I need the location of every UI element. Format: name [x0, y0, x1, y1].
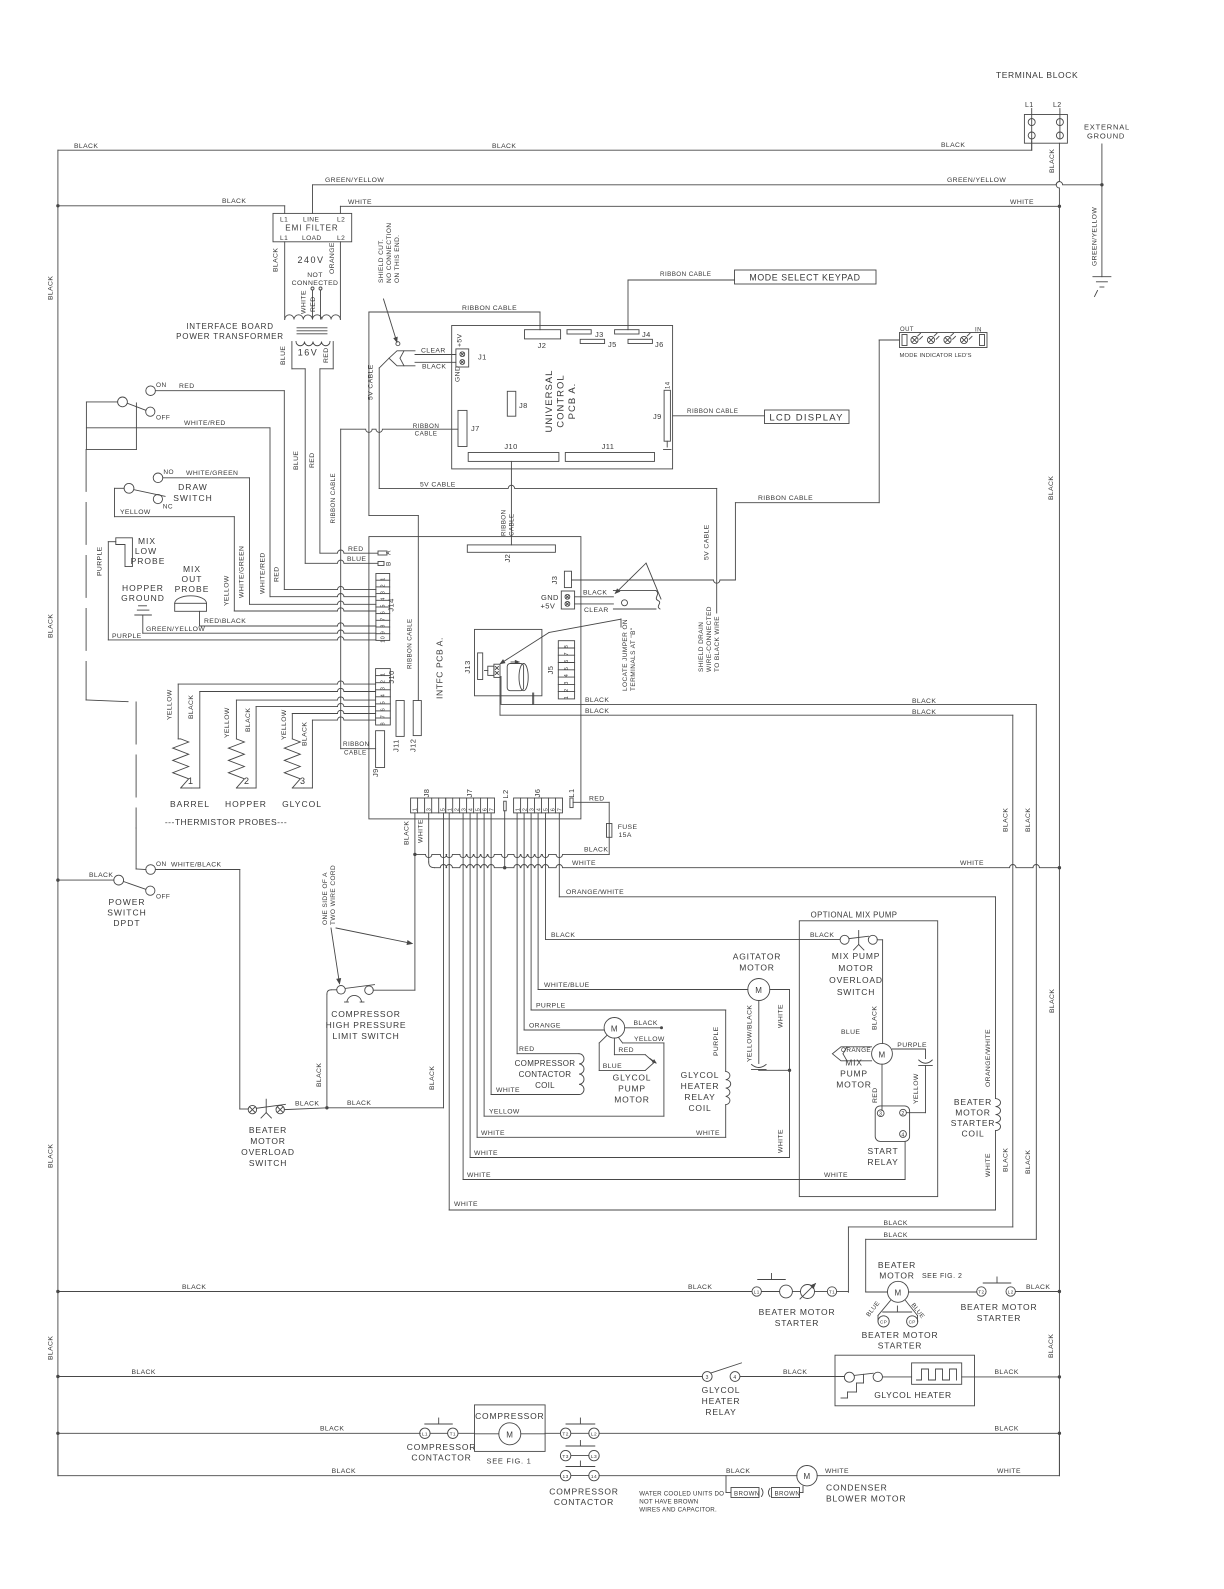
svg-text:PURPLE: PURPLE [536, 1003, 566, 1010]
svg-text:NOT HAVE BROWN: NOT HAVE BROWN [639, 1499, 698, 1506]
wire ribbon cable LEDs to J3 intfc [879, 339, 899, 341]
svg-text:BLACK: BLACK [585, 708, 609, 715]
wire white/red to J14-4 [86, 427, 270, 429]
svg-text:WHITE: WHITE [997, 1468, 1021, 1475]
glycol heater relay coil [726, 1071, 731, 1104]
svg-text:J2: J2 [538, 341, 547, 350]
node rail row2 right [1058, 1375, 1061, 1378]
glycol heater thermostat switch [844, 1372, 854, 1382]
node white bus L2pin [504, 811, 506, 868]
svg-text:WHITE/RED: WHITE/RED [184, 420, 226, 427]
svg-text:+5V: +5V [457, 333, 464, 347]
svg-text:BLACK: BLACK [320, 1426, 344, 1433]
svg-text:BLACK: BLACK [1026, 1284, 1050, 1291]
wire purple to J14-10 [107, 542, 109, 640]
glycol heater relay contacts [702, 1372, 712, 1382]
svg-text:WHITE: WHITE [778, 1129, 785, 1153]
optional mix pump enclosure [799, 921, 937, 1197]
svg-text:RIBBON CABLE: RIBBON CABLE [330, 473, 337, 524]
svg-text:BLACK: BLACK [810, 932, 834, 939]
svg-text:SHIELD DRAIN: SHIELD DRAIN [698, 622, 705, 672]
wire row4 brown section [599, 1475, 797, 1477]
svg-text:CONTROL: CONTROL [556, 374, 567, 427]
connector J8 intfc bottom [411, 798, 446, 813]
svg-text:BEATER MOTOR: BEATER MOTOR [862, 1330, 939, 1340]
node rail row3 [56, 1432, 59, 1435]
wire black top bus L1 [58, 149, 1032, 151]
wire black glycol pump [625, 1027, 660, 1029]
svg-text:SEE FIG. 2: SEE FIG. 2 [922, 1273, 962, 1280]
svg-text:3: 3 [879, 1112, 882, 1118]
svg-text:GROUND: GROUND [1087, 132, 1125, 141]
svg-text:BLACK: BLACK [492, 143, 516, 150]
svg-text:STARTER: STARTER [951, 1118, 996, 1128]
svg-text:BLACK: BLACK [48, 614, 55, 638]
svg-text:BLACK: BLACK [583, 590, 607, 597]
svg-text:3: 3 [461, 808, 467, 812]
wire yellow barrel to J10-3 [177, 684, 179, 739]
svg-text:BLACK: BLACK [1025, 1150, 1032, 1174]
svg-text:SHIELD CUT.: SHIELD CUT. [378, 239, 385, 283]
connector J10 intfc [376, 669, 391, 725]
node rail row1 right [1058, 1290, 1061, 1293]
agitator motor [748, 979, 770, 1001]
connector J12 intfc [413, 701, 421, 736]
svg-text:RED: RED [323, 347, 330, 363]
svg-text:BLACK: BLACK [132, 1369, 156, 1376]
svg-text:J4: J4 [642, 330, 651, 339]
svg-text:1: 1 [564, 696, 570, 699]
svg-text:RELAY: RELAY [705, 1407, 736, 1417]
svg-text:HOPPER: HOPPER [122, 583, 164, 593]
svg-text:RIBBON CABLE: RIBBON CABLE [758, 495, 813, 502]
svg-text:BLACK: BLACK [347, 1100, 371, 1107]
svg-text:2: 2 [564, 688, 570, 691]
terminal L1 pin [570, 798, 573, 808]
svg-text:TWO WIRE CORD: TWO WIRE CORD [330, 865, 337, 925]
svg-text:L1: L1 [422, 1432, 428, 1438]
component J13 block [475, 629, 542, 695]
svg-text:HEATER: HEATER [702, 1396, 741, 1406]
svg-text:L1: L1 [280, 217, 288, 224]
svg-text:WHITE: WHITE [960, 860, 984, 867]
svg-text:3: 3 [300, 776, 305, 786]
svg-text:L1: L1 [567, 788, 576, 797]
svg-text:WHITE: WHITE [418, 819, 425, 843]
svg-text:M: M [878, 1050, 885, 1059]
svg-text:COMPRESSOR: COMPRESSOR [407, 1442, 476, 1452]
svg-text:4: 4 [901, 1132, 904, 1138]
svg-text:PURPLE: PURPLE [713, 1026, 720, 1056]
svg-text:3: 3 [427, 808, 433, 812]
svg-text:J12: J12 [409, 739, 418, 752]
svg-text:CP: CP [909, 1320, 916, 1325]
svg-text:1: 1 [515, 808, 521, 812]
LCD display [765, 410, 850, 424]
node rail row2 [56, 1375, 59, 1378]
beater motor overload switch [248, 1105, 256, 1113]
svg-text:J9: J9 [371, 768, 380, 777]
svg-text:T3: T3 [562, 1454, 568, 1460]
svg-text:WHITE: WHITE [481, 1130, 505, 1137]
svg-text:RED: RED [519, 1046, 535, 1053]
ground symbol earth [1093, 276, 1111, 278]
svg-text:POWER TRANSFORMER: POWER TRANSFORMER [176, 332, 284, 341]
svg-text:J5: J5 [608, 340, 617, 349]
svg-text:L2: L2 [591, 1432, 597, 1438]
svg-text:BLACK: BLACK [89, 872, 113, 879]
svg-text:RED\BLACK: RED\BLACK [204, 618, 246, 625]
svg-text:5: 5 [475, 808, 481, 812]
svg-text:13: 13 [563, 1474, 569, 1480]
svg-text:WHITE/GREEN: WHITE/GREEN [239, 546, 246, 598]
connector J2 universal [525, 330, 561, 339]
svg-text:BLACK: BLACK [1003, 808, 1010, 832]
svg-text:3: 3 [381, 591, 387, 594]
svg-text:OVERLOAD: OVERLOAD [829, 975, 883, 985]
svg-text:WHITE: WHITE [572, 860, 596, 867]
wire J8-1 down to limit switch [414, 813, 416, 990]
svg-text:1: 1 [381, 577, 387, 580]
wire white/green to J14-5 [163, 477, 250, 479]
connector J1 universal [456, 349, 469, 367]
svg-text:J6: J6 [533, 789, 542, 798]
svg-text:240V: 240V [297, 255, 324, 265]
svg-text:6: 6 [381, 708, 387, 711]
svg-text:YELLOW: YELLOW [120, 509, 151, 516]
svg-text:PURPLE: PURPLE [897, 1042, 927, 1049]
svg-text:WHITE: WHITE [467, 1172, 491, 1179]
starter overload device [801, 1285, 815, 1299]
wire black J6-5 to mix pump overload [545, 813, 547, 939]
svg-text:RIBBON CABLE: RIBBON CABLE [462, 305, 517, 312]
wire white bus J8-3 [428, 813, 430, 862]
svg-text:J7: J7 [465, 789, 474, 798]
mix pump motor overload switch [840, 935, 849, 944]
svg-text:CLEAR: CLEAR [584, 607, 609, 614]
connector J8 universal [507, 391, 516, 416]
mix low probe [116, 538, 133, 567]
svg-text:M: M [611, 1024, 618, 1033]
svg-text:J8: J8 [422, 789, 431, 798]
svg-text:MOTOR: MOTOR [838, 963, 873, 973]
svg-text:MIX: MIX [138, 536, 156, 546]
connector J3 intfc [564, 571, 571, 587]
svg-text:CONNECTED: CONNECTED [292, 280, 339, 287]
svg-text:RED: RED [310, 296, 317, 312]
thermistor 1 barrel [173, 739, 189, 788]
svg-text:COIL: COIL [535, 1081, 555, 1090]
svg-text:MOTOR: MOTOR [739, 963, 774, 973]
svg-text:GLYCOL HEATER: GLYCOL HEATER [874, 1390, 952, 1400]
svg-text:T2: T2 [978, 1290, 984, 1295]
svg-text:J8: J8 [519, 401, 528, 410]
terminal B blue [378, 562, 384, 566]
svg-text:MOTOR: MOTOR [614, 1095, 649, 1105]
svg-text:BLACK: BLACK [912, 698, 936, 705]
wire black relay to heater [740, 1376, 845, 1378]
svg-text:COMPRESSOR: COMPRESSOR [475, 1411, 544, 1421]
wire clear shield cable [575, 603, 614, 605]
svg-text:RIBBON CABLE: RIBBON CABLE [687, 408, 738, 415]
svg-text:16V: 16V [298, 348, 319, 358]
svg-text:J7: J7 [471, 424, 480, 433]
svg-text:BLACK: BLACK [302, 722, 309, 746]
svg-text:BEATER: BEATER [249, 1125, 287, 1135]
wire ribbon cable J10 to intfc J2 [510, 461, 512, 545]
wire black right rail L2 [1056, 143, 1059, 1476]
svg-text:L2: L2 [1053, 102, 1062, 109]
wire ribbon cable J9 to LCD [673, 415, 765, 417]
svg-text:BLUE: BLUE [347, 556, 366, 563]
wire black barrel to J10-4 [191, 787, 200, 789]
compressor box [458, 1432, 475, 1434]
svg-text:3: 3 [381, 687, 387, 690]
svg-text:STARTER: STARTER [878, 1341, 923, 1351]
svg-text:YELLOW: YELLOW [224, 575, 231, 606]
wire black row3 [58, 1432, 420, 1434]
svg-text:SWITCH: SWITCH [107, 908, 147, 918]
svg-text:HEATER: HEATER [681, 1081, 720, 1091]
svg-text:8: 8 [564, 645, 570, 648]
svg-text:J2: J2 [503, 554, 512, 563]
svg-text:MOTOR: MOTOR [250, 1136, 285, 1146]
wire white J7-1 starter coil return [448, 813, 450, 1210]
svg-text:CONTACTOR: CONTACTOR [519, 1070, 572, 1079]
svg-text:BLACK: BLACK [48, 276, 55, 300]
svg-text:RED: RED [274, 566, 281, 582]
svg-text:LINE: LINE [303, 217, 319, 224]
svg-text:TO BLACK WIRE: TO BLACK WIRE [714, 616, 721, 672]
svg-text:YELLOW: YELLOW [224, 707, 231, 738]
svg-text:WHITE: WHITE [454, 1201, 478, 1208]
svg-text:MOTOR: MOTOR [879, 1270, 914, 1280]
svg-text:ORANGE: ORANGE [529, 1023, 561, 1030]
beater motor starter right contact [977, 1287, 986, 1296]
svg-text:ON THIS END.: ON THIS END. [394, 235, 401, 283]
svg-text:BLACK: BLACK [634, 1020, 658, 1027]
svg-text:1: 1 [188, 776, 193, 786]
svg-text:M: M [506, 1430, 513, 1439]
svg-text:ORANGE: ORANGE [841, 1047, 871, 1054]
capacitor mix pump [925, 1049, 927, 1059]
svg-text:GROUND: GROUND [121, 593, 165, 603]
svg-text:EXTERNAL: EXTERNAL [1084, 123, 1130, 132]
svg-text:AGITATOR: AGITATOR [733, 952, 781, 962]
node rail power switch [56, 878, 59, 881]
svg-text:BLACK: BLACK [995, 1369, 1019, 1376]
svg-text:BLACK: BLACK [872, 1006, 879, 1030]
dashed chassis boundary [86, 449, 136, 828]
wire blue glycol pump [599, 1035, 607, 1043]
svg-text:PURPLE: PURPLE [112, 633, 142, 640]
wire black J13-2 [499, 677, 501, 715]
svg-text:YELLOW: YELLOW [281, 709, 288, 740]
wire black glycol to J10-8 [304, 787, 313, 789]
svg-text:6: 6 [550, 808, 556, 812]
svg-text:7: 7 [381, 715, 387, 718]
svg-text:2: 2 [455, 808, 461, 812]
svg-text:6: 6 [482, 808, 488, 812]
svg-text:BARREL: BARREL [170, 799, 210, 809]
svg-text:WHITE: WHITE [496, 1087, 520, 1094]
svg-text:BLACK: BLACK [74, 143, 98, 150]
svg-text:7: 7 [564, 652, 570, 655]
wire red J6-1 to compressor coil [516, 813, 518, 1054]
svg-text:4: 4 [733, 1375, 736, 1381]
wire white agitator right [770, 989, 790, 991]
svg-text:5: 5 [381, 701, 387, 704]
wire red not-connected tap [319, 287, 322, 290]
svg-text:7: 7 [381, 617, 387, 620]
connector J5 universal [580, 339, 604, 343]
svg-text:BLACK: BLACK [688, 1284, 712, 1291]
svg-text:MODE INDICATOR LED'S: MODE INDICATOR LED'S [900, 353, 972, 359]
svg-text:ORANGE/WHITE: ORANGE/WHITE [566, 889, 624, 896]
node green/yellow ground junction [1100, 183, 1103, 186]
svg-text:L1: L1 [280, 235, 288, 242]
wire blue CP right [906, 1301, 918, 1316]
wire black EMI load L1 [284, 242, 286, 319]
svg-text:WHITE: WHITE [778, 1004, 785, 1028]
compressor contactor 13 14 [560, 1470, 570, 1480]
wire black row3 right [599, 1432, 1059, 1434]
svg-text:BLACK: BLACK [182, 1284, 206, 1291]
glycol heater element [883, 1376, 912, 1378]
svg-text:ON: ON [156, 861, 167, 868]
CP terminals [878, 1316, 889, 1327]
svg-text:YELLOW: YELLOW [489, 1109, 520, 1116]
svg-text:RED: RED [618, 1047, 634, 1054]
svg-text:BLACK: BLACK [273, 248, 280, 272]
svg-text:WHITE/BLACK: WHITE/BLACK [171, 862, 222, 869]
svg-text:HOPPER: HOPPER [225, 799, 267, 809]
svg-text:SWITCH: SWITCH [173, 493, 213, 503]
svg-text:WATER COOLED UNITS DO: WATER COOLED UNITS DO [639, 1491, 724, 1498]
compressor contactor T2 L2 [545, 1432, 560, 1434]
wire T1 up to black [837, 1291, 849, 1293]
brown capacitor note [725, 1476, 727, 1493]
svg-text:WHITE: WHITE [824, 1172, 848, 1179]
node overload junction [325, 1106, 328, 1109]
svg-text:BLUE: BLUE [280, 346, 287, 365]
svg-text:WHITE: WHITE [1010, 199, 1034, 206]
svg-text:COIL: COIL [961, 1129, 984, 1139]
twisted pair banner 5V cable [389, 351, 415, 366]
connector J4 universal [615, 330, 639, 334]
beater motor [888, 1281, 909, 1302]
wire blue transformer secondary [304, 369, 306, 564]
svg-text:BEATER MOTOR: BEATER MOTOR [759, 1307, 836, 1317]
wire orange/white J6-7 [558, 813, 560, 897]
svg-text:BEATER: BEATER [878, 1260, 916, 1270]
svg-text:BLACK: BLACK [1025, 808, 1032, 832]
wire black to power switch [58, 879, 114, 881]
wire white J7-5 glycol relay return [476, 813, 478, 1137]
svg-text:2: 2 [901, 1111, 904, 1117]
svg-text:BEATER MOTOR: BEATER MOTOR [961, 1302, 1038, 1312]
wire white/black power to overload [155, 869, 239, 871]
svg-text:J3: J3 [550, 576, 559, 585]
svg-text:6: 6 [564, 659, 570, 662]
svg-text:OPTIONAL MIX PUMP: OPTIONAL MIX PUMP [811, 911, 898, 920]
jumper terminals [488, 666, 494, 675]
svg-text:---THERMISTOR PROBES---: ---THERMISTOR PROBES--- [165, 817, 287, 827]
beater motor starter coil [995, 897, 997, 1099]
svg-text:4: 4 [564, 674, 570, 677]
wire stub frame [86, 448, 136, 450]
svg-text:BLACK: BLACK [584, 847, 608, 854]
svg-text:BLACK: BLACK [332, 1468, 356, 1475]
thermistor 2 hopper [228, 739, 244, 788]
svg-text:M: M [755, 986, 762, 995]
connector J10 universal [468, 453, 559, 462]
svg-text:RIBBON: RIBBON [413, 423, 440, 430]
svg-text:4: 4 [536, 808, 542, 812]
wire purple J6-3 to glycol relay coil [530, 813, 532, 1010]
svg-text:10: 10 [381, 636, 387, 643]
wire black hopper to J10-6 [248, 787, 257, 789]
svg-text:M: M [803, 1472, 810, 1481]
svg-text:9: 9 [381, 631, 387, 634]
svg-text:STARTER: STARTER [977, 1313, 1022, 1323]
svg-text:BEATER: BEATER [954, 1097, 992, 1107]
svg-text:1: 1 [448, 808, 454, 812]
wire 5V cable from banner [379, 358, 389, 368]
svg-text:M: M [894, 1288, 901, 1297]
svg-text:WHITE: WHITE [301, 290, 308, 314]
wire black overload to mix pump motor [877, 939, 882, 941]
svg-text:5V CABLE: 5V CABLE [420, 482, 456, 489]
svg-text:GND: GND [455, 366, 462, 382]
svg-text:BROWN: BROWN [734, 1490, 760, 1497]
svg-text:BLACK: BLACK [1048, 476, 1055, 500]
svg-text:L3: L3 [591, 1454, 597, 1460]
wire black to J1 [415, 361, 456, 363]
svg-text:CP: CP [880, 1320, 887, 1325]
svg-text:WHITE: WHITE [696, 1130, 720, 1137]
svg-text:RED: RED [179, 383, 195, 390]
svg-text:5: 5 [543, 808, 549, 812]
svg-text:NOT: NOT [307, 272, 323, 279]
svg-text:SWITCH: SWITCH [249, 1158, 287, 1168]
connector J14 intfc [376, 574, 390, 641]
svg-text:COMPRESSOR: COMPRESSOR [515, 1059, 576, 1068]
node black bus J8-1 [413, 853, 416, 856]
svg-text:OVERLOAD: OVERLOAD [241, 1147, 295, 1157]
svg-text:NO CONNECTION: NO CONNECTION [386, 223, 393, 283]
svg-text:L2: L2 [501, 789, 510, 798]
svg-text:MIX: MIX [183, 564, 201, 574]
svg-text:BLACK: BLACK [222, 198, 246, 205]
svg-text:COMPRESSOR: COMPRESSOR [331, 1009, 400, 1019]
svg-text:BLACK: BLACK [726, 1468, 750, 1475]
svg-text:ONE SIDE OF A: ONE SIDE OF A [322, 872, 329, 925]
wire white J7-4 agitator return [469, 813, 471, 1158]
terminal T1 [827, 1287, 836, 1296]
svg-text:GLYCOL: GLYCOL [613, 1073, 652, 1083]
connector J9 intfc [376, 731, 385, 768]
svg-text:GLYCOL: GLYCOL [282, 799, 322, 809]
wire black L2 to rail [1015, 1291, 1059, 1293]
wire clear to J1 [415, 354, 456, 356]
node white bus right rail [1058, 866, 1061, 869]
svg-text:B: B [386, 561, 393, 566]
svg-text:14: 14 [666, 381, 672, 389]
svg-text:PUMP: PUMP [618, 1084, 646, 1094]
thermistor 3 glycol [284, 739, 300, 788]
wire ribbon cable J7 route [341, 429, 458, 432]
